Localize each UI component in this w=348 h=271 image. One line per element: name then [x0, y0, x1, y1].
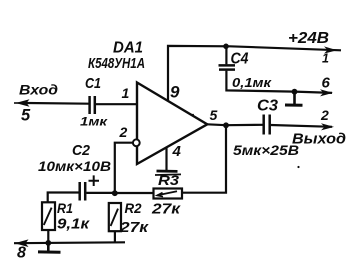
wire R2 bottom [114, 231, 116, 242]
capacitor C2 [78, 182, 81, 201]
capacitor C3 [262, 115, 265, 135]
wire C2 right plate to node [86, 192, 115, 194]
node junction C2/R2/R3/pin2 [112, 190, 118, 196]
common rail wire [14, 241, 125, 244]
pin 9 wire up and right to +24V [168, 46, 341, 101]
C2 polarity plus [89, 175, 100, 186]
svg-text:Вход: Вход [19, 82, 58, 98]
svg-text:27к: 27к [151, 201, 182, 218]
node junction at ground tap on pin6 rail [292, 89, 298, 95]
wire R3 left to node [115, 192, 154, 194]
svg-text:4: 4 [172, 143, 182, 160]
wire C2 left plate to R1 top [48, 193, 79, 203]
svg-text:Выход: Выход [292, 132, 346, 148]
svg-text:9: 9 [170, 83, 180, 102]
ground symbol on pin6 rail [293, 92, 296, 105]
svg-text:8: 8 [17, 245, 26, 262]
ground symbol on common rail [47, 243, 50, 251]
pin 4 wire to common [165, 147, 167, 171]
svg-text:C4: C4 [231, 51, 249, 68]
svg-text:5: 5 [21, 107, 31, 125]
inverting input circle [133, 139, 140, 146]
svg-text:+24В: +24В [288, 30, 329, 47]
common rail arrow (terminal 8) [15, 239, 29, 247]
svg-text:27к: 27к [119, 219, 150, 236]
svg-text:1: 1 [322, 52, 329, 66]
node junction at R1 bottom [45, 240, 51, 246]
capacitor C4 [219, 64, 236, 67]
node junction at output [223, 122, 229, 128]
svg-text:0,1мк: 0,1мк [232, 75, 273, 90]
input terminal arrow [14, 102, 30, 104]
speck inside op-amp [192, 114, 194, 116]
svg-text:К548УН1А: К548УН1А [88, 55, 145, 72]
svg-text:C1: C1 [85, 75, 101, 92]
svg-text:C3: C3 [257, 98, 278, 115]
wire R1 bottom [47, 230, 49, 243]
svg-text:R2: R2 [125, 200, 142, 216]
wire input to C1 [27, 102, 89, 105]
svg-text:2: 2 [119, 124, 128, 140]
speck near feedback riser [297, 166, 299, 168]
resistor R2 [109, 203, 121, 231]
svg-text:5мк×25В: 5мк×25В [233, 143, 299, 158]
svg-text:5: 5 [210, 107, 218, 123]
output terminal arrow [321, 123, 334, 130]
+24V supply arrow [324, 46, 337, 53]
wire C3 to output terminal [271, 125, 332, 127]
svg-text:1: 1 [122, 85, 130, 101]
pin 6 rail arrow [320, 89, 333, 96]
svg-text:9,1к: 9,1к [57, 216, 91, 233]
capacitor C1 [88, 96, 91, 114]
svg-text:DA1: DA1 [113, 40, 143, 57]
wire down to C4 [225, 46, 227, 64]
wire pin 2 to feedback node [115, 143, 133, 194]
resistor R1 [42, 202, 55, 230]
svg-text:6: 6 [322, 75, 331, 92]
svg-text:10мк×10В: 10мк×10В [38, 158, 111, 174]
svg-text:2: 2 [320, 107, 329, 123]
node junction at C4 tap [223, 44, 229, 50]
wire op-amp output to C3 [207, 123, 262, 126]
svg-text:R1: R1 [57, 200, 73, 216]
wire R3 right to feedback riser [182, 125, 226, 192]
wire C1 to pin 1 [96, 103, 137, 105]
resistor R3 [154, 189, 183, 199]
op-amp DA1 triangle [137, 83, 207, 165]
svg-text:C2: C2 [72, 142, 91, 159]
pin 4 common bar [157, 170, 178, 173]
svg-text:1мк: 1мк [80, 115, 108, 129]
wire C4 down to pin 6 rail [226, 71, 332, 93]
